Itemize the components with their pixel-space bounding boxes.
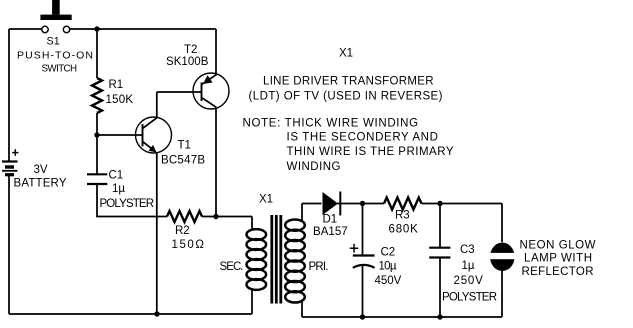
svg-text:R1: R1 <box>109 79 124 91</box>
svg-text:SWITCH: SWITCH <box>42 64 78 75</box>
svg-text:POLYSTER: POLYSTER <box>100 198 155 210</box>
svg-text:250V: 250V <box>454 275 484 287</box>
svg-text:R2: R2 <box>175 225 190 237</box>
svg-text:X1: X1 <box>339 48 353 60</box>
svg-text:150Ω: 150Ω <box>172 239 205 251</box>
svg-text:IS THE SECONDERY AND: IS THE SECONDERY AND <box>287 132 438 144</box>
svg-text:3V: 3V <box>34 164 48 176</box>
svg-text:SK100B: SK100B <box>166 56 209 68</box>
svg-text:BC547B: BC547B <box>161 155 205 167</box>
svg-text:680K: 680K <box>389 224 419 236</box>
svg-text:1µ: 1µ <box>112 183 125 195</box>
svg-text:C3: C3 <box>460 244 475 256</box>
svg-text:450V: 450V <box>375 275 402 287</box>
svg-text:10µ: 10µ <box>379 261 397 273</box>
svg-text:S1: S1 <box>47 36 60 48</box>
svg-text:T2: T2 <box>184 44 197 56</box>
svg-text:NOTE: THICK WIRE WINDING: NOTE: THICK WIRE WINDING <box>243 118 419 130</box>
svg-text:POLYSTER: POLYSTER <box>442 292 497 304</box>
svg-text:T1: T1 <box>178 140 191 152</box>
svg-text:THIN WIRE IS THE PRIMARY: THIN WIRE IS THE PRIMARY <box>287 146 454 158</box>
svg-text:NEON GLOW: NEON GLOW <box>520 240 596 252</box>
svg-text:LAMP WITH: LAMP WITH <box>524 253 592 265</box>
svg-text:1µ: 1µ <box>462 260 475 272</box>
svg-text:(LDT) OF TV (USED IN REVERSE): (LDT) OF TV (USED IN REVERSE) <box>249 91 443 103</box>
svg-text:WINDING: WINDING <box>287 161 341 173</box>
svg-text:D1: D1 <box>323 214 338 226</box>
svg-text:X1: X1 <box>259 194 273 206</box>
svg-text:PUSH-TO-ON: PUSH-TO-ON <box>17 50 93 62</box>
svg-text:150K: 150K <box>106 94 134 106</box>
svg-text:C1: C1 <box>109 170 124 182</box>
svg-text:SEC.: SEC. <box>220 261 244 273</box>
svg-text:BA157: BA157 <box>313 226 348 238</box>
svg-text:C2: C2 <box>381 247 396 259</box>
svg-text:BATTERY: BATTERY <box>14 178 67 190</box>
svg-text:PRI.: PRI. <box>309 261 329 273</box>
svg-text:R3: R3 <box>395 210 410 222</box>
svg-text:REFLECTOR: REFLECTOR <box>522 266 594 278</box>
svg-text:LINE DRIVER TRANSFORMER: LINE DRIVER TRANSFORMER <box>263 76 434 88</box>
